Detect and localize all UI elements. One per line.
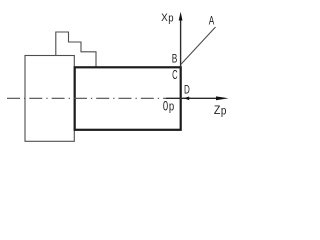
svg-text:B: B — [172, 52, 178, 65]
Xp axis line — [180, 20, 182, 68]
svg-text:p: p — [168, 13, 173, 25]
tool path A to B (diagonal) — [181, 27, 216, 64]
svg-text:0: 0 — [163, 97, 168, 113]
chuck jaw (stepped) — [56, 32, 96, 67]
svg-text:X: X — [161, 12, 168, 24]
Xp axis arrowhead — [179, 12, 183, 21]
svg-text:Z: Z — [214, 103, 221, 117]
Zp axis arrowhead — [216, 96, 229, 100]
direction arrow at D on Zp axis — [184, 97, 190, 101]
centerline (dash-dot) — [7, 97, 166, 99]
workpiece W1 — [75, 67, 181, 130]
svg-text:A: A — [209, 13, 215, 27]
svg-text:p: p — [221, 105, 227, 117]
svg-text:p: p — [169, 99, 174, 113]
chuck body — [25, 56, 74, 142]
svg-text:C: C — [172, 68, 178, 82]
svg-text:D: D — [184, 83, 190, 97]
Zp axis line — [166, 97, 220, 99]
